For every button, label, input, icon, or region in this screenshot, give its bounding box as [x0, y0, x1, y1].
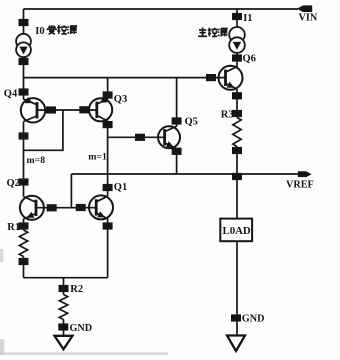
pin R1 bottom — [19, 258, 29, 265]
pin Q2 collector — [19, 178, 29, 185]
ground symbol left — [55, 336, 73, 350]
pin Q3 collector — [103, 91, 113, 98]
pin Q3 emitter — [103, 121, 113, 128]
scan artifact left edge mid — [0, 249, 3, 262]
pin Q4 base — [46, 106, 56, 113]
resistor R3 — [233, 118, 241, 147]
pin I1 top — [232, 13, 242, 20]
wire Q2-Q1 base rail — [36, 207, 96, 209]
svg-text:Q5: Q5 — [185, 116, 198, 127]
wire Q2 emitter to R1 — [23, 219, 25, 230]
port VREF — [298, 171, 312, 177]
port VIN — [297, 5, 312, 12]
svg-text:I1: I1 — [243, 13, 252, 24]
current source I1 (main source) — [229, 27, 245, 43]
wire Q4 emitter to Q2 collector — [23, 122, 25, 197]
pin R1 top — [19, 222, 29, 229]
wire top VIN rail — [24, 8, 299, 10]
current source I0 (controlled source) — [16, 34, 31, 49]
wire LOAD to ground — [236, 241, 238, 335]
svg-text:R1: R1 — [7, 222, 20, 233]
transistor Q6 (NPN, leads right) — [219, 66, 243, 90]
svg-text:m=8: m=8 — [27, 155, 46, 166]
label 控 (main src char2) — [208, 28, 211, 37]
pin R3 top — [232, 110, 242, 117]
wire left supply column (I0 source to Q4 collector) — [23, 9, 25, 100]
wire Q3 collector drop — [107, 78, 109, 99]
transistor Q2 (NPN, leads left) — [20, 196, 44, 220]
pin Q1 emitter — [103, 222, 113, 229]
wire VREF rail to LOAD — [236, 174, 238, 219]
pin R2 top — [59, 285, 69, 292]
wire bottom rail — [24, 277, 108, 279]
svg-text:R3: R3 — [221, 109, 234, 120]
resistor R2 — [59, 295, 67, 320]
scan artifact left edge low — [0, 339, 4, 355]
wire R2 bottom to ground — [63, 320, 65, 337]
pin Q3 base — [79, 106, 89, 113]
svg-text:Q1: Q1 — [114, 182, 127, 193]
wire Q6 emitter / R3 column — [236, 89, 238, 118]
pin Q6 emitter — [232, 92, 242, 99]
pin I0 top — [19, 19, 29, 26]
pin Q5 emitter — [172, 148, 182, 155]
load box — [220, 219, 252, 242]
pin node VREF junction — [232, 173, 242, 180]
pin GND right — [231, 314, 241, 321]
label 主 (main src char1) — [201, 28, 204, 29]
wire mid rail y77 to Q6 base — [24, 77, 226, 79]
scan artifact bottom edge — [0, 352, 168, 355]
svg-text:Q4: Q4 — [4, 88, 18, 99]
pin Q1 base — [76, 204, 86, 211]
svg-text:Q6: Q6 — [243, 53, 256, 64]
svg-text:R2: R2 — [70, 284, 83, 295]
transistor Q5 (NPN, leads right) — [158, 126, 180, 148]
pin Q5 collector — [172, 117, 182, 124]
transistor Q3 (PNP, leads right) — [89, 98, 112, 121]
label 源 (main src char3) — [218, 29, 219, 36]
pin Q2 base — [47, 204, 57, 211]
wire VREF rail — [71, 173, 298, 175]
transistor Q4 (PNP, leads left) — [21, 98, 45, 122]
wire Q3 emitter down through VREF rail to Q1 collector — [107, 121, 109, 196]
pin Q4 emitter — [19, 132, 29, 139]
svg-text:I0: I0 — [35, 26, 44, 37]
wire I1 source column to Q6 collector — [236, 9, 238, 67]
pin I0 bottom — [19, 58, 29, 65]
transistor Q1 (NPN, leads right) — [89, 195, 113, 219]
wire base-rail drop to emitter link m-link — [24, 110, 63, 150]
wire VREF rail drop to Q1/Q2 bases — [70, 174, 72, 208]
pin Q5 base — [135, 134, 145, 141]
wire Q4-Q3 base rail — [37, 109, 97, 111]
label 受 (controlled src char1) — [48, 26, 56, 28]
svg-text:GND: GND — [70, 323, 93, 334]
svg-text:Q2: Q2 — [7, 178, 20, 189]
label 控 (controlled src char2) — [57, 25, 60, 34]
svg-text:Q3: Q3 — [114, 94, 127, 105]
svg-text:VIN: VIN — [299, 12, 318, 23]
wire Q5 base branch — [108, 136, 165, 138]
wire R3 bottom to VREF rail — [236, 147, 238, 175]
ground symbol right — [227, 336, 245, 352]
wire R2 top drop — [63, 278, 65, 295]
svg-text:VREF: VREF — [286, 180, 314, 191]
wire Q5 collector drop — [176, 78, 178, 127]
svg-text:m=1: m=1 — [88, 152, 107, 163]
pin Q6 collector — [232, 54, 242, 61]
svg-text:L0AD: L0AD — [223, 225, 251, 237]
wire R1 bottom to corner — [23, 257, 25, 278]
pin Q1 collector — [103, 184, 113, 191]
wire Q5 emitter to VREF rail — [176, 148, 178, 174]
pin R3 bottom — [232, 147, 242, 154]
resistor R1 — [19, 230, 27, 257]
wire Q1 emitter down — [107, 219, 109, 278]
pin GND left — [58, 323, 68, 330]
pin Q4 collector — [19, 88, 29, 95]
svg-text:GND: GND — [242, 314, 265, 325]
pin Q6 base — [206, 74, 216, 81]
label 源 (controlled src char3) — [67, 26, 68, 33]
